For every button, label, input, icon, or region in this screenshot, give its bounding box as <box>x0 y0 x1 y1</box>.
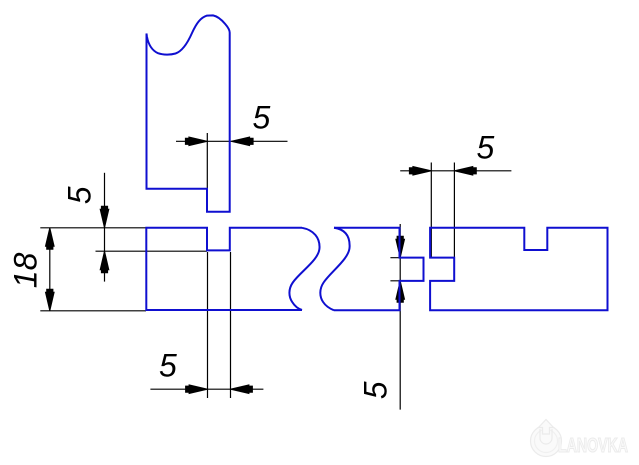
dimension: 5 (bottom, groove width) <box>150 252 263 398</box>
dimension: 5 (top, tongue width) <box>176 133 288 202</box>
arrow right-pointing <box>189 385 207 393</box>
dimension: 5 (left, groove depth) <box>96 173 208 282</box>
extension line left <box>430 163 432 258</box>
extension line top <box>390 257 424 259</box>
dimension: 18 (left, board thickness) <box>40 228 207 311</box>
svg-text:5: 5 <box>62 186 98 204</box>
extension line left <box>207 252 209 398</box>
right piece with left groove and top notch <box>430 228 607 310</box>
dimension: 5 (right vertical, tongue height) <box>390 224 424 410</box>
extension line top <box>40 227 207 229</box>
dimension line <box>150 388 263 390</box>
dimension line <box>400 170 511 172</box>
dimension line <box>176 140 288 142</box>
svg-text:5: 5 <box>358 381 394 399</box>
watermark ulanovka logo <box>531 420 629 458</box>
arrow up <box>396 281 404 299</box>
arrow left-pointing <box>232 137 250 145</box>
middle piece with tongue <box>320 228 423 310</box>
svg-text:5: 5 <box>159 348 177 384</box>
extension line bottom <box>390 280 424 282</box>
dimension line <box>399 224 401 410</box>
arrow down onto top edge <box>100 209 108 227</box>
arrow left-pointing <box>231 385 249 393</box>
svg-text:5: 5 <box>253 100 271 136</box>
extension line right <box>230 252 232 398</box>
arrow right-pointing <box>189 137 207 145</box>
arrow down <box>46 292 54 310</box>
dimension line <box>49 228 51 311</box>
svg-text:18: 18 <box>8 252 44 288</box>
arrow left-pointing <box>455 167 473 175</box>
arrow up <box>46 228 54 246</box>
extension line bottom <box>40 310 146 312</box>
top piece outline (part broken away above) <box>147 15 230 211</box>
arrow right-pointing <box>413 167 431 175</box>
arrow down <box>396 239 404 257</box>
lower-left piece with groove <box>146 228 319 310</box>
extension line right <box>453 163 455 258</box>
break line right side of lower-left piece <box>289 228 319 310</box>
arrow up onto groove bottom <box>100 252 108 270</box>
dimension line <box>104 173 106 282</box>
break line left side of middle piece <box>320 228 349 310</box>
svg-text:5: 5 <box>477 130 495 166</box>
svg-text:LANOVKA: LANOVKA <box>558 435 628 457</box>
extension line <box>206 133 208 202</box>
extension line groove bottom <box>96 250 208 252</box>
dimension: 5 (top right, groove depth) <box>400 163 511 258</box>
